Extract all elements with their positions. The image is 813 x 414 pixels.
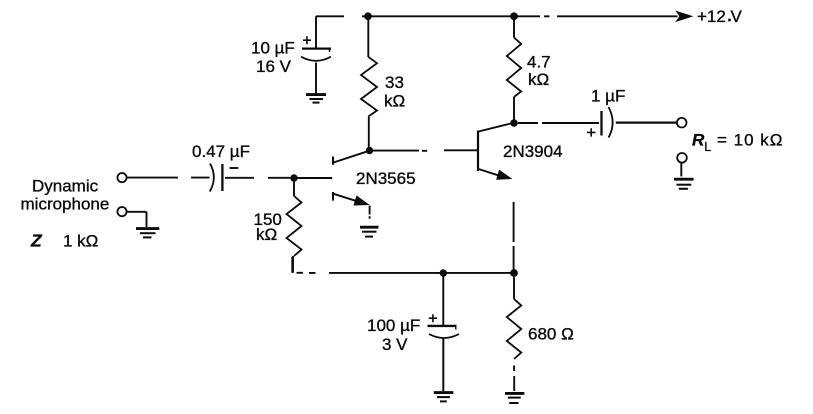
svg-text:kΩ: kΩ <box>256 225 277 244</box>
ground (680) <box>505 393 524 403</box>
label 33 kOhm <box>384 73 405 111</box>
node top rail / 33k tap <box>364 12 372 20</box>
svg-text:RL = 10 kΩ: RL = 10 kΩ <box>692 131 783 154</box>
resistor 33 kOhm <box>361 16 377 147</box>
wire input to coupling cap <box>127 177 210 179</box>
wire lower output terminal to ground <box>680 163 682 177</box>
svg-text:2N3904: 2N3904 <box>503 142 563 161</box>
wire Q1 base <box>294 177 332 179</box>
ground (microphone) <box>136 229 159 238</box>
wire cap to output terminal <box>616 121 677 123</box>
capacitor 1 uF <box>587 107 613 138</box>
wire cap to gate node <box>225 177 290 179</box>
wire collector to output cap <box>518 122 599 124</box>
svg-text:kΩ: kΩ <box>384 91 405 110</box>
capacitor 100 uF 3 V <box>428 273 460 391</box>
svg-text:2N3565: 2N3565 <box>356 169 416 188</box>
svg-text:16 V: 16 V <box>256 57 292 76</box>
svg-text:Dynamic: Dynamic <box>32 176 99 195</box>
resistor 4.7 kOhm <box>507 16 521 120</box>
svg-text:4.7: 4.7 <box>527 52 551 71</box>
svg-text:10 µF: 10 µF <box>251 38 295 57</box>
node top rail / 4.7k tap <box>510 12 518 20</box>
capacitor 0.47 uF <box>210 164 239 192</box>
svg-text:1 kΩ: 1 kΩ <box>63 232 98 251</box>
ground (100uF) <box>434 393 454 402</box>
node bottom rail / 100uF tap <box>440 269 447 276</box>
label 100 uF / 3 V <box>367 316 420 354</box>
svg-text:Z: Z <box>30 231 43 251</box>
wire +12V top rail <box>316 11 692 21</box>
wire Q2 emitter down <box>513 202 515 270</box>
svg-text:680 Ω: 680 Ω <box>528 325 574 344</box>
label 10 uF / 16 V <box>251 38 295 75</box>
wire Q1 drain to Q2 base <box>373 149 478 152</box>
svg-text:0.47 µF: 0.47 µF <box>192 142 250 161</box>
node bottom rail / 680 tap <box>510 269 518 277</box>
svg-text:3 V: 3 V <box>382 335 408 354</box>
input terminal lower (grounded) <box>117 207 126 216</box>
output terminal lower <box>677 153 687 163</box>
svg-text:microphone: microphone <box>21 195 110 214</box>
label 4.7 kOhm <box>527 52 551 89</box>
label 150 kOhm <box>254 210 282 244</box>
ground (RL) <box>674 179 694 189</box>
wire bottom rail <box>292 257 515 273</box>
resistor 680 Ohm <box>507 277 522 391</box>
svg-text:33: 33 <box>385 73 404 92</box>
input terminal upper (dynamic microphone) <box>117 173 126 182</box>
ground (Q1 source) <box>360 227 379 236</box>
label Dynamic microphone <box>21 176 110 213</box>
svg-text:kΩ: kΩ <box>528 70 549 89</box>
output terminal upper <box>677 118 687 128</box>
wire Q1 source stub <box>369 206 371 219</box>
svg-text:1 µF: 1 µF <box>591 87 625 106</box>
svg-text:+12 V: +12 V <box>697 7 743 26</box>
label +12 V <box>697 7 743 26</box>
ground (10uF) <box>306 95 326 103</box>
transistor Q2 2N3904 <box>478 123 512 179</box>
label Z = 1 kOhm <box>30 231 98 251</box>
transistor Q1 2N3565 <box>333 151 368 205</box>
node gate (0.47uF / 150k / Q1 base) <box>290 174 297 181</box>
node Q1 drain <box>366 147 373 154</box>
resistor 150 kOhm <box>287 182 302 273</box>
capacitor 10 uF 16 V <box>301 16 331 93</box>
svg-text:100 µF: 100 µF <box>367 316 420 335</box>
node Q2 collector <box>510 119 518 127</box>
wire lower terminal to ground <box>127 212 147 227</box>
